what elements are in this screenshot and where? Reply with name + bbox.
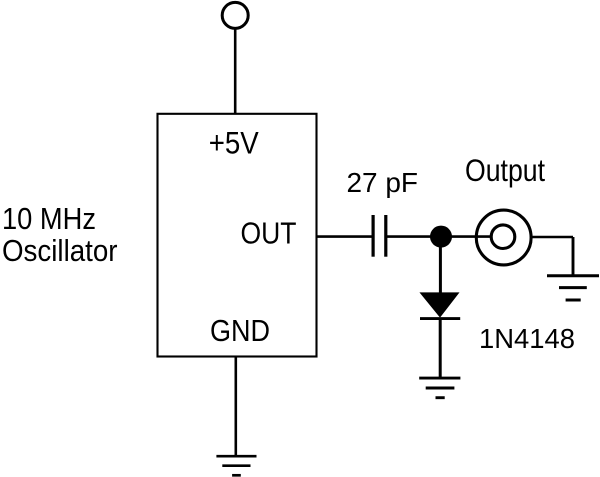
capacitor C1 right plate — [384, 215, 387, 257]
terminal circle +5V input — [222, 2, 248, 28]
svg-text:OUT: OUT — [241, 216, 297, 250]
svg-text:Output: Output — [465, 152, 545, 188]
svg-text:1N4148: 1N4148 — [479, 323, 575, 354]
svg-text:27 pF: 27 pF — [347, 167, 419, 198]
output connector J1 inner ring — [491, 225, 515, 249]
wire terminal to box top — [234, 29, 237, 115]
output connector J1 outer ring — [476, 210, 531, 265]
ground (below box GND) bar 1 — [216, 455, 256, 458]
oscillator box U1 — [158, 114, 317, 357]
svg-text:Oscillator: Oscillator — [2, 233, 118, 268]
wire capacitor to node — [386, 235, 441, 238]
svg-text:GND: GND — [210, 314, 270, 348]
wire connector to right ground — [531, 236, 573, 239]
ground (right, at output) bar 1 — [547, 274, 599, 277]
wire down to right ground — [572, 237, 575, 276]
capacitor C1 left plate — [372, 215, 375, 257]
svg-text:+5V: +5V — [209, 125, 259, 161]
ground (below diode) bar 2 — [426, 387, 455, 390]
wire OUT pin to capacitor — [317, 235, 374, 238]
diode D1 triangle (anode) — [421, 293, 459, 317]
wire node down to diode — [439, 237, 442, 294]
wire diode to ground — [439, 319, 442, 378]
ground (right) bar 2 — [559, 286, 587, 289]
node junction (solder dot) — [430, 226, 452, 248]
wire node to output connector — [441, 235, 491, 238]
ground (below box GND) bar 3 — [232, 474, 241, 477]
svg-text:10 MHz: 10 MHz — [2, 201, 96, 236]
ground (below box GND) bar 2 — [222, 464, 250, 467]
ground (below diode) bar 3 — [436, 396, 445, 399]
ground (right) bar 3 — [566, 299, 581, 302]
diode D1 cathode bar — [420, 317, 460, 320]
wire GND pin to bottom ground — [235, 357, 238, 457]
ground (below diode) bar 1 — [419, 377, 460, 380]
